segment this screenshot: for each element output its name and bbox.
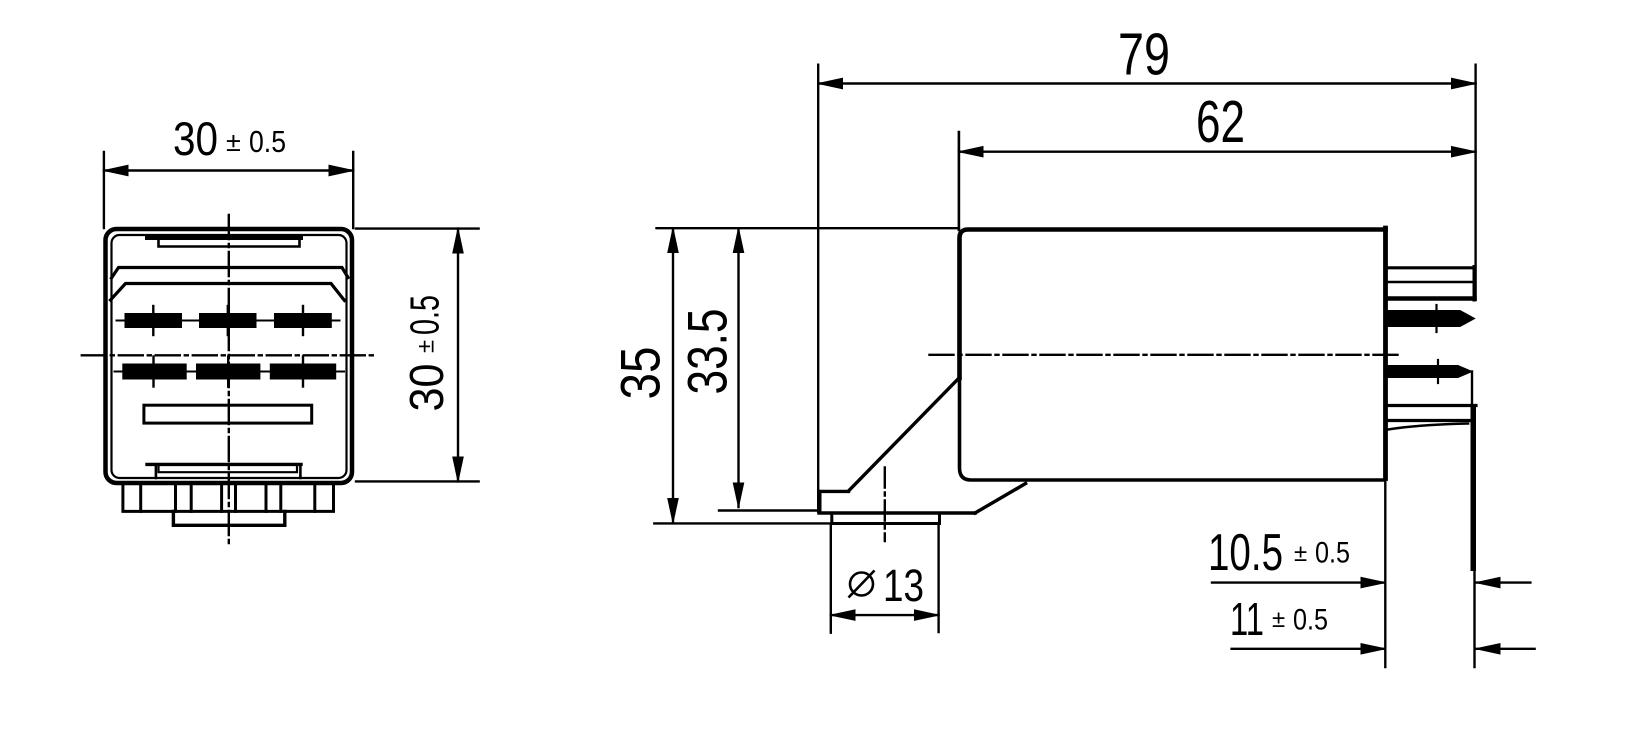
flange foot [819,490,848,493]
boss (round spigot) [832,513,940,524]
dim texts right view [1118,22,1245,156]
dim 35 line [672,228,674,522]
terminal strip below body [123,485,334,512]
link pin3 tip to bracket [1471,372,1473,405]
boss centerline [884,468,886,542]
pin slot row1 mid [192,306,265,335]
lower center block [173,511,284,525]
body outline [960,230,1386,379]
vertical centerline [228,215,230,545]
text 11 [1230,593,1328,645]
right view horizontal centerline [930,354,1399,356]
pin slot row2 mid [189,357,269,387]
dim 33.5 line [737,228,739,507]
dim 11 lines [1232,648,1386,650]
svg-text:±: ± [226,127,241,157]
bottom notch [147,464,301,478]
svg-text:30: 30 [173,112,218,165]
flange diagonal lower [975,484,1026,514]
svg-text:30: 30 [401,364,454,412]
dim 30 right: text (rotated) [401,295,454,412]
pin 2 (solid blade) [1384,305,1475,332]
svg-text:0.5: 0.5 [402,295,448,335]
left view outer body [106,229,353,483]
pin slot row2 right [262,357,344,387]
svg-text:35: 35 [609,347,672,400]
left view inner body [112,235,347,478]
dim 33.5 bottom extension [719,509,819,511]
mounting flange diagonal upper [849,378,960,492]
dim 35 / 33.5 top extension line [657,227,959,229]
chamfer line 1 [112,268,349,279]
pin slot row1 left [117,306,191,335]
dim phi13 extension lines [831,524,939,633]
text 10.5 [1208,524,1350,582]
chamfer line 2 [111,284,345,301]
svg-text:0.5: 0.5 [1315,537,1350,570]
dim 35 bottom extension [654,522,832,524]
wide middle slot [144,405,312,423]
svg-text:0.5: 0.5 [249,124,286,159]
flange bottom [819,511,975,515]
top slot [147,238,301,247]
svg-text:11: 11 [1230,593,1264,645]
dim 30 right: dimension line [457,229,459,482]
pin 4 / mounting bracket [1388,406,1476,572]
dim 30 top: text [173,112,286,165]
horizontal centerline [82,354,378,356]
svg-text:33.5: 33.5 [676,309,739,395]
dim phi13 dimension line [831,614,939,616]
dim 30 top: extension lines [104,152,353,228]
text phi13 [849,560,925,611]
svg-text:10.5: 10.5 [1208,524,1283,582]
pin slot row1 right [267,306,340,335]
dim 62 extension line [958,132,961,230]
svg-text:13: 13 [883,560,924,611]
dim 62 dimension line [959,150,1476,152]
dim 79 extension lines [817,65,819,512]
svg-text:0.5: 0.5 [1293,604,1328,637]
dim 79 dimension line [818,82,1475,84]
dim 30 top: dimension line [104,169,353,171]
extension line below bracket [1473,571,1475,667]
svg-text:±: ± [1294,540,1307,567]
dim 30 right: extension lines [356,229,479,482]
pin slot row2 left [115,357,195,387]
extension line below body right edge [1384,478,1386,667]
svg-text:±: ± [413,340,440,353]
svg-text:±: ± [1272,606,1285,633]
svg-text:79: 79 [1118,22,1170,88]
pin 3 (solid blade) [1384,360,1472,383]
pin 1 (top blade, outline) [1388,267,1475,301]
dim 10.5 lines [1212,581,1385,583]
svg-text:62: 62 [1196,89,1245,155]
